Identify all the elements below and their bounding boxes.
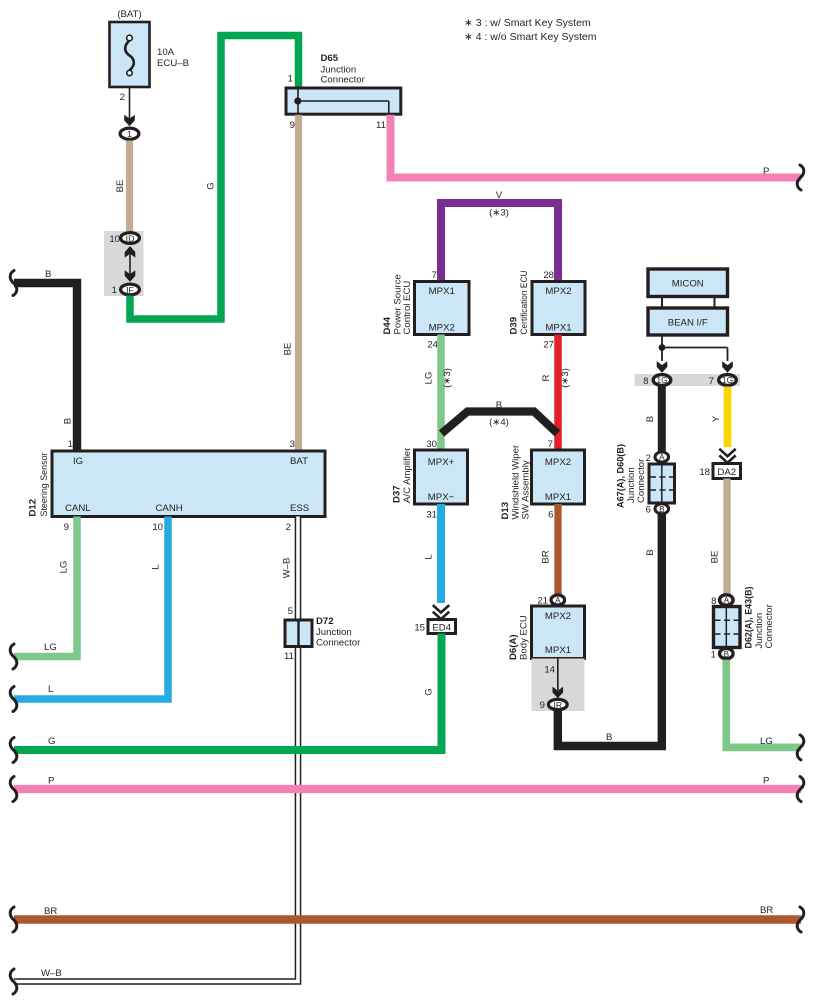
svg-text:1: 1 [288, 74, 293, 85]
svg-text:1: 1 [68, 439, 73, 450]
ECU D12 steering sensor [28, 451, 326, 517]
svg-text:11: 11 [284, 651, 294, 662]
ground point DA2 [699, 464, 740, 479]
svg-text:10: 10 [152, 522, 163, 533]
svg-text:D72: D72 [316, 616, 334, 627]
svg-text:28: 28 [543, 270, 554, 281]
svg-text:(BAT): (BAT) [117, 9, 141, 20]
ECU D37 A/C amplifier [392, 447, 468, 521]
ECU D39 certification [509, 270, 586, 351]
svg-text:ID: ID [126, 234, 135, 244]
svg-text:18: 18 [699, 467, 710, 478]
svg-text:D62(A), E43(B): D62(A), E43(B) [744, 587, 755, 649]
svg-text:B: B [659, 505, 665, 514]
svg-text:6: 6 [646, 505, 651, 516]
svg-text:BR: BR [541, 550, 552, 563]
wire G ED4 to bus [10, 634, 441, 763]
pin 7 D13 [548, 439, 553, 450]
svg-text:R: R [541, 374, 552, 381]
svg-text:B: B [724, 650, 730, 659]
svg-text:A/C Amplifier: A/C Amplifier [402, 447, 413, 503]
wire B 1G to A67 [645, 387, 662, 453]
svg-text:D44: D44 [382, 316, 393, 334]
svg-text:MPX1: MPX1 [545, 492, 571, 503]
svg-text:BE: BE [283, 343, 294, 356]
svg-text:IG: IG [73, 456, 83, 467]
svg-text:2: 2 [120, 92, 125, 103]
junction connector A67(A) D60(B) [616, 444, 675, 516]
svg-text:P: P [763, 166, 769, 177]
svg-text:B: B [63, 418, 74, 424]
svg-text:G: G [206, 182, 217, 189]
wire L D37 to ED4 [424, 504, 450, 619]
svg-text:MPX1: MPX1 [545, 323, 571, 334]
svg-text:MPX1: MPX1 [429, 286, 455, 297]
svg-text:MICON: MICON [672, 279, 704, 290]
svg-text:D65: D65 [321, 53, 339, 64]
svg-text:3: 3 [290, 439, 295, 450]
wire LG from CANL [10, 517, 77, 670]
svg-text:MPX−: MPX− [428, 492, 455, 503]
svg-text:B: B [645, 549, 656, 555]
svg-text:(∗3): (∗3) [560, 368, 571, 388]
svg-text:Control ECU: Control ECU [402, 281, 413, 335]
svg-text:Junction: Junction [316, 627, 352, 638]
svg-text:30: 30 [426, 439, 437, 450]
svg-text:9: 9 [540, 700, 545, 711]
connector IR [532, 659, 585, 712]
svg-text:SW Assembly: SW Assembly [521, 460, 532, 519]
wire R D39 to D13 [541, 335, 571, 451]
svg-text:7: 7 [432, 270, 437, 281]
svg-text:MPX2: MPX2 [545, 457, 571, 468]
wire P from D65 pin 11 [391, 115, 804, 190]
svg-text:Y: Y [711, 415, 722, 422]
svg-text:A67(A), D60(B): A67(A), D60(B) [616, 444, 627, 508]
ECU D6(A) body [508, 606, 585, 660]
svg-text:1G: 1G [657, 376, 668, 385]
svg-text:L: L [424, 554, 435, 560]
svg-text:1: 1 [112, 285, 117, 296]
svg-text:14: 14 [544, 665, 555, 676]
svg-text:MPX2: MPX2 [545, 611, 571, 622]
wire B alternative *4 [442, 400, 558, 434]
wire L from CANH [10, 517, 168, 712]
svg-text:ED4: ED4 [432, 623, 451, 634]
svg-text:A: A [659, 453, 665, 462]
svg-text:31: 31 [426, 510, 437, 521]
note smart key legend [464, 17, 597, 43]
wire G from IF to D65 [130, 36, 299, 320]
ground point ED4 [414, 620, 455, 634]
svg-text:IF: IF [126, 285, 134, 295]
svg-text:CANH: CANH [156, 503, 183, 514]
svg-text:1G: 1G [722, 376, 733, 385]
fuse 10A ECU-B [110, 9, 190, 103]
svg-text:(∗3): (∗3) [442, 368, 453, 388]
svg-text:MPX2: MPX2 [545, 286, 571, 297]
svg-text:B: B [606, 732, 612, 743]
svg-text:15: 15 [414, 623, 425, 634]
svg-text:(∗4): (∗4) [489, 417, 509, 428]
svg-text:BR: BR [760, 905, 773, 916]
svg-text:5: 5 [288, 606, 293, 617]
svg-text:MPX2: MPX2 [429, 323, 455, 334]
svg-text:G: G [424, 688, 435, 695]
wire W-B from ESS [10, 517, 298, 995]
svg-text:7: 7 [548, 439, 553, 450]
bus P [10, 776, 804, 802]
svg-text:BE: BE [115, 180, 126, 193]
svg-text:9: 9 [64, 522, 69, 533]
svg-text:G: G [48, 736, 55, 747]
svg-text:A: A [724, 596, 730, 605]
BEAN I/F box [648, 308, 728, 335]
svg-text:B: B [645, 416, 656, 422]
svg-text:10A: 10A [157, 47, 175, 58]
svg-text:V: V [496, 190, 503, 201]
ECU D44 power source control [382, 270, 469, 351]
wire LG D44 to D37 [424, 335, 454, 451]
svg-text:6: 6 [548, 510, 553, 521]
svg-text:W–B: W–B [282, 558, 293, 579]
svg-text:W–B: W–B [41, 968, 62, 979]
svg-text:MPX1: MPX1 [545, 645, 571, 656]
svg-text:D37: D37 [392, 485, 403, 503]
svg-text:BEAN I/F: BEAN I/F [668, 318, 708, 329]
wire fuse to connector 1 [124, 87, 135, 126]
svg-text:BE: BE [710, 551, 721, 564]
svg-text:MPX+: MPX+ [428, 457, 455, 468]
ECU D13 windshield wiper SW [500, 444, 585, 520]
svg-text:B: B [496, 400, 502, 411]
bus BR [10, 905, 804, 932]
svg-text:LG: LG [44, 642, 57, 653]
svg-text:D6(A): D6(A) [508, 634, 519, 660]
pin 30 D37 [426, 439, 437, 450]
junction connector D65 [286, 53, 401, 131]
svg-text:7: 7 [709, 376, 714, 387]
connector oval 1 [120, 128, 139, 139]
wire BE D65 to D12 BAT [283, 115, 299, 451]
svg-text:Connector: Connector [321, 75, 366, 86]
svg-text:D39: D39 [509, 317, 520, 335]
wire Y 1G to DA2 [711, 387, 736, 463]
wire B IR to A67 [558, 514, 662, 746]
svg-text:27: 27 [543, 340, 554, 351]
svg-text:B: B [45, 269, 51, 280]
svg-text:Body ECU: Body ECU [519, 615, 530, 660]
svg-text:D13: D13 [500, 502, 511, 520]
svg-text:DA2: DA2 [717, 467, 736, 478]
wire BE DA2 to D62 [710, 479, 728, 595]
svg-text:P: P [763, 776, 769, 787]
svg-text:1: 1 [711, 650, 716, 661]
svg-text:L: L [151, 564, 162, 570]
svg-text:10: 10 [109, 234, 120, 245]
svg-text:9: 9 [290, 120, 295, 131]
junction connector D62(A) E43(B) [711, 587, 775, 661]
svg-text:LG: LG [760, 736, 773, 747]
svg-text:CANL: CANL [65, 503, 91, 514]
svg-text:ECU–B: ECU–B [157, 58, 189, 69]
wire BE fuse to ID [115, 141, 130, 234]
svg-text:Certification ECU: Certification ECU [519, 270, 530, 334]
svg-text:2: 2 [286, 522, 291, 533]
svg-text:8: 8 [643, 376, 648, 387]
svg-text:Connector: Connector [764, 603, 775, 648]
node 1G band [635, 374, 741, 387]
svg-text:Steering Sensor: Steering Sensor [39, 452, 50, 517]
svg-text:BAT: BAT [290, 456, 308, 467]
svg-text:D12: D12 [28, 499, 39, 517]
svg-text:Connector: Connector [316, 638, 361, 649]
svg-text:24: 24 [427, 340, 438, 351]
svg-text:IR: IR [553, 700, 562, 710]
junction connector D72 [284, 606, 361, 662]
svg-text:L: L [48, 684, 54, 695]
MICON box [648, 269, 728, 297]
connector A D6 [537, 595, 564, 607]
wire B to D12 IG [10, 269, 77, 451]
svg-text:∗ 4 : w/o Smart Key System: ∗ 4 : w/o Smart Key System [464, 31, 597, 43]
svg-text:Connector: Connector [636, 458, 647, 503]
wire LG D62 to right [726, 660, 804, 760]
connector ID / IF [104, 231, 144, 296]
svg-text:BR: BR [44, 906, 57, 917]
svg-text:(∗3): (∗3) [489, 208, 509, 219]
wire BEAN to 1G connectors [657, 335, 733, 373]
svg-text:ESS: ESS [290, 503, 309, 514]
svg-text:LG: LG [424, 372, 435, 385]
svg-text:11: 11 [376, 120, 386, 131]
svg-text:A: A [555, 596, 561, 605]
svg-text:1: 1 [127, 129, 132, 139]
svg-text:LG: LG [59, 561, 70, 574]
svg-text:∗ 3 : w/ Smart Key System: ∗ 3 : w/ Smart Key System [464, 17, 591, 29]
svg-text:P: P [48, 776, 54, 787]
wire BR D13 to D6 [541, 504, 559, 594]
wires MICON to BEAN [662, 297, 715, 309]
wire V D44 to D39 [441, 190, 558, 282]
